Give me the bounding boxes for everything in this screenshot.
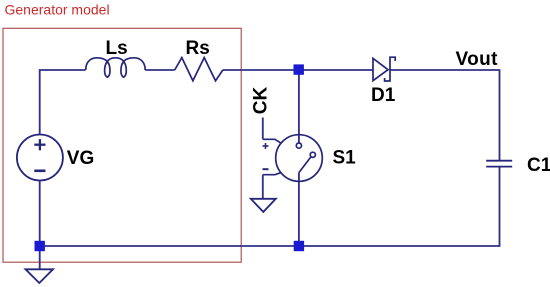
wire: top junction to diode anode <box>299 69 373 71</box>
svg-text:S1: S1 <box>333 148 357 169</box>
wire: VG top vertical + top-left corner <box>40 70 86 134</box>
svg-text:D1: D1 <box>371 85 396 106</box>
svg-text:C1: C1 <box>527 155 550 176</box>
junction node: bottom left (VG / ground) <box>35 241 45 251</box>
ground (switch control) <box>251 199 276 212</box>
wire: inductor to resistor <box>145 69 175 71</box>
inductor Ls <box>86 58 146 77</box>
wire: switch - terminal to ground <box>262 175 264 199</box>
svg-text:Rs: Rs <box>186 38 210 59</box>
switch S1 <box>263 135 323 182</box>
diode D1 (schottky) <box>373 57 395 81</box>
capacitor C1 <box>486 161 512 167</box>
wire: CK control to switch + terminal <box>262 118 264 140</box>
ground (main, under VG) <box>26 269 54 283</box>
junction node: top (switch tap) <box>294 64 304 74</box>
annotation box: generator model boundary <box>3 28 241 262</box>
voltage source VG <box>17 135 63 181</box>
wire: switch S1 bottom vertical to bottom junction <box>298 173 300 247</box>
svg-text:VG: VG <box>67 148 94 169</box>
wire: VG bottom vertical to bottom rail <box>39 181 41 251</box>
svg-text:Ls: Ls <box>106 38 128 59</box>
wire: diode cathode to Vout corner, down to capacitor C1 top <box>390 70 500 160</box>
svg-text:CK: CK <box>251 86 272 114</box>
wire: switch S1 top vertical from top junction <box>298 70 300 143</box>
svg-text:Generator model: Generator model <box>5 2 110 18</box>
resistor Rs <box>175 58 223 81</box>
junction node: bottom middle (switch) <box>294 241 304 251</box>
wire: resistor to top junction <box>223 69 299 71</box>
wire: capacitor C1 bottom down to bottom-right corner and bottom rail <box>40 167 500 246</box>
svg-text:Vout: Vout <box>456 49 499 70</box>
wire: bottom junction to main ground <box>39 251 41 269</box>
